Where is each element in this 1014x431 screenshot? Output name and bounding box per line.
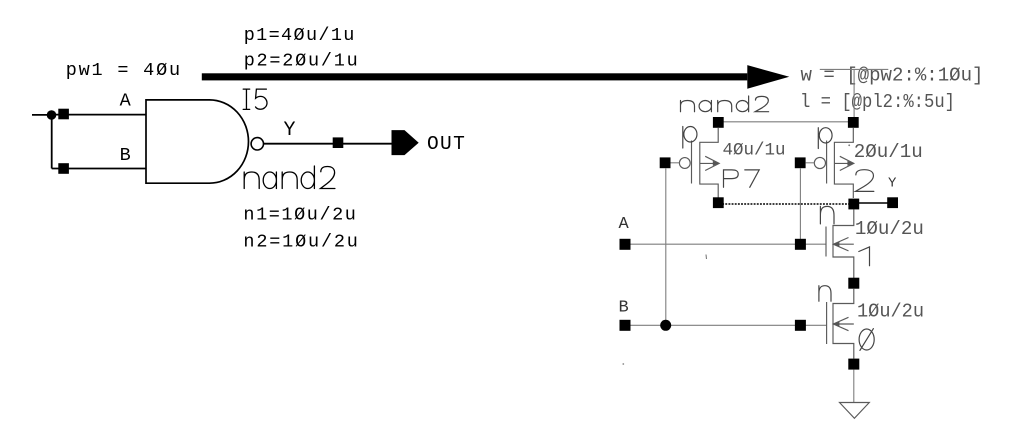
pin square P7 gate: [660, 157, 671, 168]
svg-text:1Øu/2u: 1Øu/2u: [855, 218, 924, 240]
pin square B right: [620, 320, 631, 331]
wire source rail P7-P2: [718, 121, 853, 123]
wire vdd stub vertical: [853, 69, 855, 122]
pmos P7 body: [679, 128, 719, 198]
wire gate P2 down to A row: [799, 168, 801, 244]
svg-text:Y: Y: [284, 119, 296, 142]
svg-text:2Øu/1u: 2Øu/1u: [854, 141, 923, 163]
label P7: [724, 170, 760, 187]
wire Y output: [264, 143, 392, 145]
svg-text:A: A: [619, 215, 630, 234]
svg-text:A: A: [120, 91, 132, 112]
nand2 gate U-I5 body: [146, 100, 248, 183]
pmos P2 body: [814, 128, 853, 198]
pin square B input: [58, 163, 69, 174]
svg-text:p1=4Øu/1u: p1=4Øu/1u: [244, 25, 355, 46]
wire P2 gate pin to bubble: [806, 162, 815, 164]
svg-text:l = [@pl2:%:5u]: l = [@pl2:%:5u]: [800, 91, 955, 113]
junction dot input: [47, 110, 57, 120]
wire B to gate: [52, 168, 146, 170]
svg-text:pw1 = 4Øu: pw1 = 4Øu: [66, 60, 180, 81]
pin square N1-N0 mid: [848, 278, 859, 289]
pin square A right: [620, 239, 631, 250]
svg-text:p2=2Øu/1u: p2=2Øu/1u: [244, 51, 358, 72]
wire A row: [631, 243, 827, 245]
wire vertical A-to-B: [51, 115, 53, 169]
pin square P7 drain: [713, 197, 724, 208]
nand2 gate output bubble: [251, 138, 263, 150]
nmos N1 body: [826, 210, 854, 279]
ground symbol: [840, 403, 870, 419]
svg-text:B: B: [120, 145, 131, 166]
pin square B row mid: [795, 320, 806, 331]
label nand2 left: [244, 166, 335, 189]
pin square P7 source: [713, 117, 724, 128]
wire input stub left: [32, 114, 51, 116]
big transition arrow head: [747, 65, 789, 89]
wire B row: [631, 324, 827, 326]
svg-text:n1=1Øu/2u: n1=1Øu/2u: [243, 205, 356, 226]
label 2: [855, 170, 873, 192]
pin square Y net: [333, 137, 344, 148]
label n of N0: [819, 286, 831, 302]
label nand2 right: [681, 96, 769, 112]
big transition arrow shaft: [202, 73, 748, 80]
stray tick mark: [705, 255, 708, 260]
label I5: [243, 89, 267, 109]
pin square P2 drain: [848, 199, 859, 210]
pin square N0 source: [848, 359, 859, 370]
nmos N0 body: [827, 289, 854, 359]
pin square Y right: [887, 197, 898, 208]
svg-text:B: B: [619, 299, 629, 318]
stray dot mark 2: [848, 144, 850, 146]
label n of N1: [820, 206, 834, 224]
wire vdd rail top: [820, 68, 889, 70]
pin square A row mid: [795, 239, 806, 250]
OUT port symbol: [392, 130, 419, 155]
svg-text:1Øu/2u: 1Øu/2u: [857, 301, 924, 323]
pin square P2 source: [848, 117, 859, 128]
wire Y node to pin: [854, 202, 893, 204]
wire P7 gate pin to bubble: [671, 162, 680, 164]
svg-text:Y: Y: [888, 175, 897, 191]
wire gate P7 down to B row: [665, 168, 667, 325]
svg-text:OUT: OUT: [427, 133, 465, 155]
label p of P7: [683, 126, 697, 148]
stray dot mark: [622, 363, 624, 365]
label 0: [859, 329, 874, 351]
label p of P2: [818, 128, 832, 149]
dashed net P7 drain to P2 drain: [719, 203, 854, 205]
pin square A input: [58, 109, 69, 120]
svg-text:w = [@pw2:%:1Øu]: w = [@pw2:%:1Øu]: [801, 65, 984, 87]
pin square P2 gate: [795, 157, 806, 168]
svg-text:n2=1Øu/2u: n2=1Øu/2u: [243, 232, 358, 253]
wire A to gate: [52, 114, 146, 116]
label 1: [859, 247, 870, 266]
svg-text:4Øu/1u: 4Øu/1u: [723, 141, 786, 161]
wire N0 to ground: [853, 370, 855, 403]
junction dot B row: [660, 320, 671, 331]
